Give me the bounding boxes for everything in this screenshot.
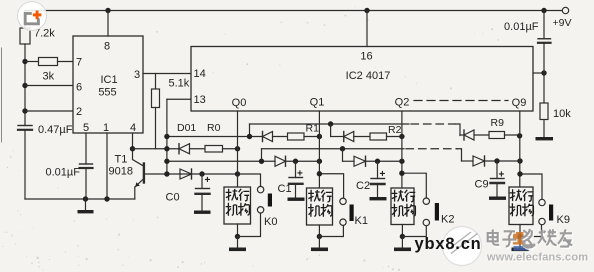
- node box9 ground: [517, 234, 522, 239]
- resistor R0: [205, 146, 223, 153]
- svg-text:0.47µF: 0.47µF: [38, 124, 73, 136]
- svg-text:10k: 10k: [553, 108, 571, 120]
- dashed line inside IC2 Q2 to Q9: [414, 100, 508, 102]
- wire D11 to R1: [273, 136, 288, 138]
- wire row5 base row: [145, 174, 261, 186]
- svg-text:K2: K2: [441, 214, 454, 226]
- wire D91 to R9: [474, 134, 489, 136]
- node box1 ground: [317, 234, 322, 239]
- svg-text:0.01µF: 0.01µF: [46, 167, 81, 179]
- watermark bottom-right circle: [443, 227, 482, 266]
- switch K0: [257, 186, 272, 213]
- svg-text:IC2 4017: IC2 4017: [346, 70, 391, 82]
- svg-text:Q9: Q9: [512, 97, 527, 109]
- diode D22: [354, 156, 366, 166]
- node row4 at Q1: [317, 159, 322, 164]
- node C9 top: [494, 158, 499, 163]
- svg-text:5: 5: [83, 122, 89, 134]
- watermark 电子发烧友: [488, 229, 573, 248]
- wire 0.01uF bottom lead: [543, 43, 545, 73]
- wire row4 stage01: [167, 160, 275, 162]
- wire K2 return: [402, 226, 426, 237]
- resistor 3k: [39, 58, 58, 66]
- capacitor 0.47uF: [18, 126, 32, 130]
- wire D12 to C1 Q1: [286, 160, 320, 162]
- wire row3 east dashed: [406, 148, 457, 150]
- node R9 at Q9: [517, 133, 522, 138]
- wire row y124 dashed: [411, 123, 455, 125]
- svg-text:4: 4: [130, 122, 136, 134]
- watermark logo orange mark: [513, 232, 524, 245]
- wire Q2 vertical: [401, 111, 403, 188]
- watermark top-left circle: [18, 2, 47, 31]
- resistor R 7.2k: [20, 28, 30, 44]
- wire row3 west: [133, 148, 180, 150]
- diode D12: [275, 156, 286, 166]
- node pin5 ground: [83, 196, 88, 201]
- svg-text:C1: C1: [278, 183, 292, 195]
- wire row2 stage2: [331, 136, 344, 138]
- node row124 stage2 tap: [328, 121, 333, 126]
- wire 3k row right to pin7: [58, 61, 74, 63]
- node pin16 top rail: [364, 8, 369, 13]
- node row2 at bus: [164, 134, 169, 139]
- resistor R2: [370, 133, 387, 140]
- wire box2 bottom: [401, 225, 403, 237]
- wire pin5 cap to ground rail: [85, 168, 87, 199]
- node box2 ground: [400, 234, 405, 239]
- svg-text:555: 555: [98, 87, 116, 99]
- wire K1 return: [319, 225, 343, 236]
- terminal +9V: [562, 7, 568, 13]
- node pin1 ground: [104, 196, 109, 201]
- wire bottom ground rail: [25, 198, 135, 200]
- svg-text:C2: C2: [356, 180, 370, 192]
- node row5 at Q0: [235, 171, 240, 176]
- node row5 at bus: [164, 171, 169, 176]
- wire row2 stage1: [167, 136, 263, 138]
- wire D22 to C2 Q2: [366, 160, 402, 162]
- wire K0 return: [238, 213, 261, 237]
- wire R0 to Q0: [223, 148, 238, 150]
- wire K9 tap: [520, 174, 542, 199]
- svg-text:C9: C9: [475, 179, 489, 191]
- node pin8 top rail: [105, 8, 110, 13]
- scan fold line left edge: [1, 48, 3, 142]
- svg-text:C0: C0: [166, 192, 180, 204]
- node row4 at bus: [164, 159, 169, 164]
- wire row2 stage9: [460, 134, 464, 136]
- ground below 10k: [536, 137, 554, 140]
- wire D92 to C9 Q9: [485, 160, 521, 162]
- node R1 at Q1: [317, 134, 322, 139]
- node row3 at bus: [164, 146, 169, 151]
- svg-text:K0: K0: [264, 216, 277, 228]
- node pin6 row: [22, 83, 27, 88]
- svg-text:+: +: [297, 169, 303, 180]
- diode D91: [464, 130, 474, 140]
- svg-text:14: 14: [194, 68, 206, 80]
- wire top +9V rail: [25, 10, 562, 12]
- wire box0 bottom: [237, 224, 239, 237]
- wire pin6: [25, 85, 73, 87]
- wire R9 to Q9: [505, 134, 520, 136]
- IC U2 IC2 4017 box: [191, 47, 533, 112]
- node K9 tap at Q9: [517, 171, 522, 176]
- watermark logo blue mark: [514, 246, 530, 251]
- wire K2 tap: [402, 173, 426, 198]
- wire pin2: [25, 110, 73, 112]
- svg-text:0.01µF: 0.01µF: [504, 21, 539, 33]
- diode D01: [179, 144, 190, 154]
- switch K2: [423, 198, 439, 226]
- node top rail right: [541, 8, 546, 13]
- wire drop x330.6: [330, 124, 332, 137]
- wire Q9 vertical: [519, 111, 521, 187]
- svg-text:3: 3: [134, 69, 140, 81]
- wire D21 to R2: [354, 136, 370, 138]
- svg-text:R9: R9: [491, 117, 505, 129]
- actuator box 2 text 执行机构: [392, 190, 416, 217]
- wire pin1 IC1: [106, 133, 108, 199]
- wire D01 to R0: [190, 148, 206, 150]
- svg-text:D01: D01: [177, 122, 196, 134]
- svg-text:3k: 3k: [43, 71, 55, 83]
- wire 10k bottom lead: [543, 120, 545, 138]
- node T1 collector pin4: [130, 146, 135, 151]
- wire pin16: [366, 11, 368, 47]
- wire row3 east solid: [262, 148, 405, 150]
- diode D02: [180, 169, 192, 179]
- node pin15: [541, 70, 546, 75]
- svg-text:16: 16: [360, 51, 372, 63]
- svg-text:+: +: [205, 175, 211, 186]
- svg-text:Q0: Q0: [232, 97, 247, 109]
- wire left rail mid: [24, 44, 26, 126]
- wire Q0 vertical: [237, 111, 239, 187]
- svg-text:R2: R2: [388, 124, 402, 136]
- op-amp U1 IC1 555 box: [73, 36, 143, 133]
- node C1 top: [293, 159, 298, 164]
- node pin7 row: [22, 59, 27, 64]
- resistor R9: [489, 132, 505, 139]
- wire K9 return: [520, 225, 542, 237]
- ground below box0: [229, 237, 246, 252]
- node row4 at Q9: [517, 158, 522, 163]
- svg-text:Q2: Q2: [395, 97, 410, 109]
- svg-text:7: 7: [76, 57, 82, 69]
- svg-text:T1: T1: [115, 154, 128, 166]
- wire drop x342.5: [342, 149, 344, 162]
- capacitor C9: [489, 161, 506, 200]
- wire row4 stage9: [462, 160, 474, 162]
- resistor 5.1k: [152, 89, 160, 108]
- svg-text:1: 1: [103, 122, 109, 134]
- wire row4 stage2: [343, 160, 355, 162]
- node row4 at Q2: [399, 159, 404, 164]
- wire left rail upper: [24, 11, 26, 29]
- diode D92: [473, 156, 485, 166]
- wire pin5 IC1: [85, 133, 87, 164]
- ground below box1: [311, 237, 328, 252]
- paper noise bottom: [2, 155, 400, 271]
- node R2 at Q2: [399, 134, 404, 139]
- wire row y124 corner to stage9: [455, 124, 460, 136]
- wire drop x249.5: [249, 124, 251, 137]
- actuator box 0 text 执行机构: [226, 189, 250, 216]
- node C0 top: [199, 171, 204, 176]
- wire pin13 vertical bus: [166, 99, 168, 174]
- wire row3 corner stage9: [457, 149, 462, 161]
- svg-text:R1: R1: [306, 123, 320, 135]
- diode D21: [344, 132, 354, 142]
- actuator box 1: [307, 188, 333, 225]
- capacitor C2: [370, 161, 387, 200]
- paper noise: [4, 7, 500, 266]
- node box0 ground: [235, 234, 240, 239]
- wire pin3 to IC2 pin14: [143, 73, 191, 75]
- svg-text:ybx8.cn: ybx8.cn: [415, 235, 482, 253]
- svg-text:K9: K9: [557, 214, 570, 226]
- svg-text:R0: R0: [207, 122, 221, 134]
- wire drop x261.5: [261, 149, 263, 162]
- capacitor C0: [194, 174, 211, 214]
- actuator box 9: [509, 187, 533, 225]
- wire pin13: [167, 98, 191, 100]
- svg-text:www.elecfans.com: www.elecfans.com: [486, 252, 588, 264]
- actuator box 1 text 执行机构: [308, 190, 332, 217]
- wire K1 tap: [319, 174, 343, 198]
- svg-text:+: +: [499, 170, 505, 181]
- node R0 at Q0: [235, 146, 240, 151]
- wire pin15: [533, 72, 544, 74]
- node K2 tap at Q2: [399, 171, 404, 176]
- actuator box 9 text 执行机构: [510, 189, 534, 216]
- svg-text:8: 8: [104, 41, 110, 53]
- node row3 stage2 tap: [340, 146, 345, 151]
- resistor 10k: [540, 103, 548, 120]
- wire R2 to Q2: [387, 136, 402, 138]
- node row4 x261.5: [259, 159, 264, 164]
- capacitor 0.01uF pin5: [80, 164, 93, 168]
- svg-text:9018: 9018: [109, 166, 133, 178]
- actuator box 2: [391, 188, 414, 225]
- wire 5.1k lower lead: [155, 108, 157, 149]
- svg-text:+: +: [380, 169, 386, 180]
- actuator box 0: [224, 187, 251, 224]
- wire pin4 IC1: [132, 133, 134, 149]
- svg-text:6: 6: [76, 82, 82, 94]
- transistor Q1 T1 9018: [133, 149, 144, 199]
- svg-text:IC1: IC1: [100, 74, 117, 86]
- capacitor 0.01uF top right: [538, 39, 551, 43]
- node pin2 row: [22, 108, 27, 113]
- switch K9: [539, 199, 553, 224]
- watermark www.elecfans.com: [486, 252, 589, 265]
- ground symbol left: [78, 199, 94, 213]
- wire box9 bottom: [519, 225, 521, 237]
- wire R1 to Q1: [304, 136, 319, 138]
- ground below box9: [512, 237, 529, 252]
- wire left rail lower: [24, 130, 26, 199]
- wire 3k row left: [25, 61, 39, 63]
- wire row y124 solid: [250, 123, 410, 125]
- node K1 tap at Q1: [317, 171, 322, 176]
- svg-text:2: 2: [76, 106, 82, 118]
- wire Q1 vertical: [318, 111, 320, 188]
- svg-text:K1: K1: [355, 215, 368, 227]
- ground below box2: [394, 237, 411, 252]
- svg-text:+9V: +9V: [553, 17, 572, 29]
- switch K1: [340, 198, 354, 225]
- node C2 top: [375, 159, 380, 164]
- wire 10k top lead: [543, 73, 545, 103]
- svg-text:5.1k: 5.1k: [169, 78, 190, 90]
- svg-text:Q1: Q1: [310, 97, 325, 109]
- svg-text:13: 13: [194, 94, 206, 106]
- wire pin8: [107, 11, 109, 37]
- capacitor C1: [288, 161, 305, 201]
- wire 0.01uF top lead: [543, 11, 545, 39]
- diode D11: [263, 132, 273, 142]
- resistor R1: [288, 133, 305, 140]
- node row2 x249.5: [247, 134, 252, 139]
- wire box1 bottom: [318, 225, 320, 237]
- wire 5.1k upper lead: [155, 74, 157, 90]
